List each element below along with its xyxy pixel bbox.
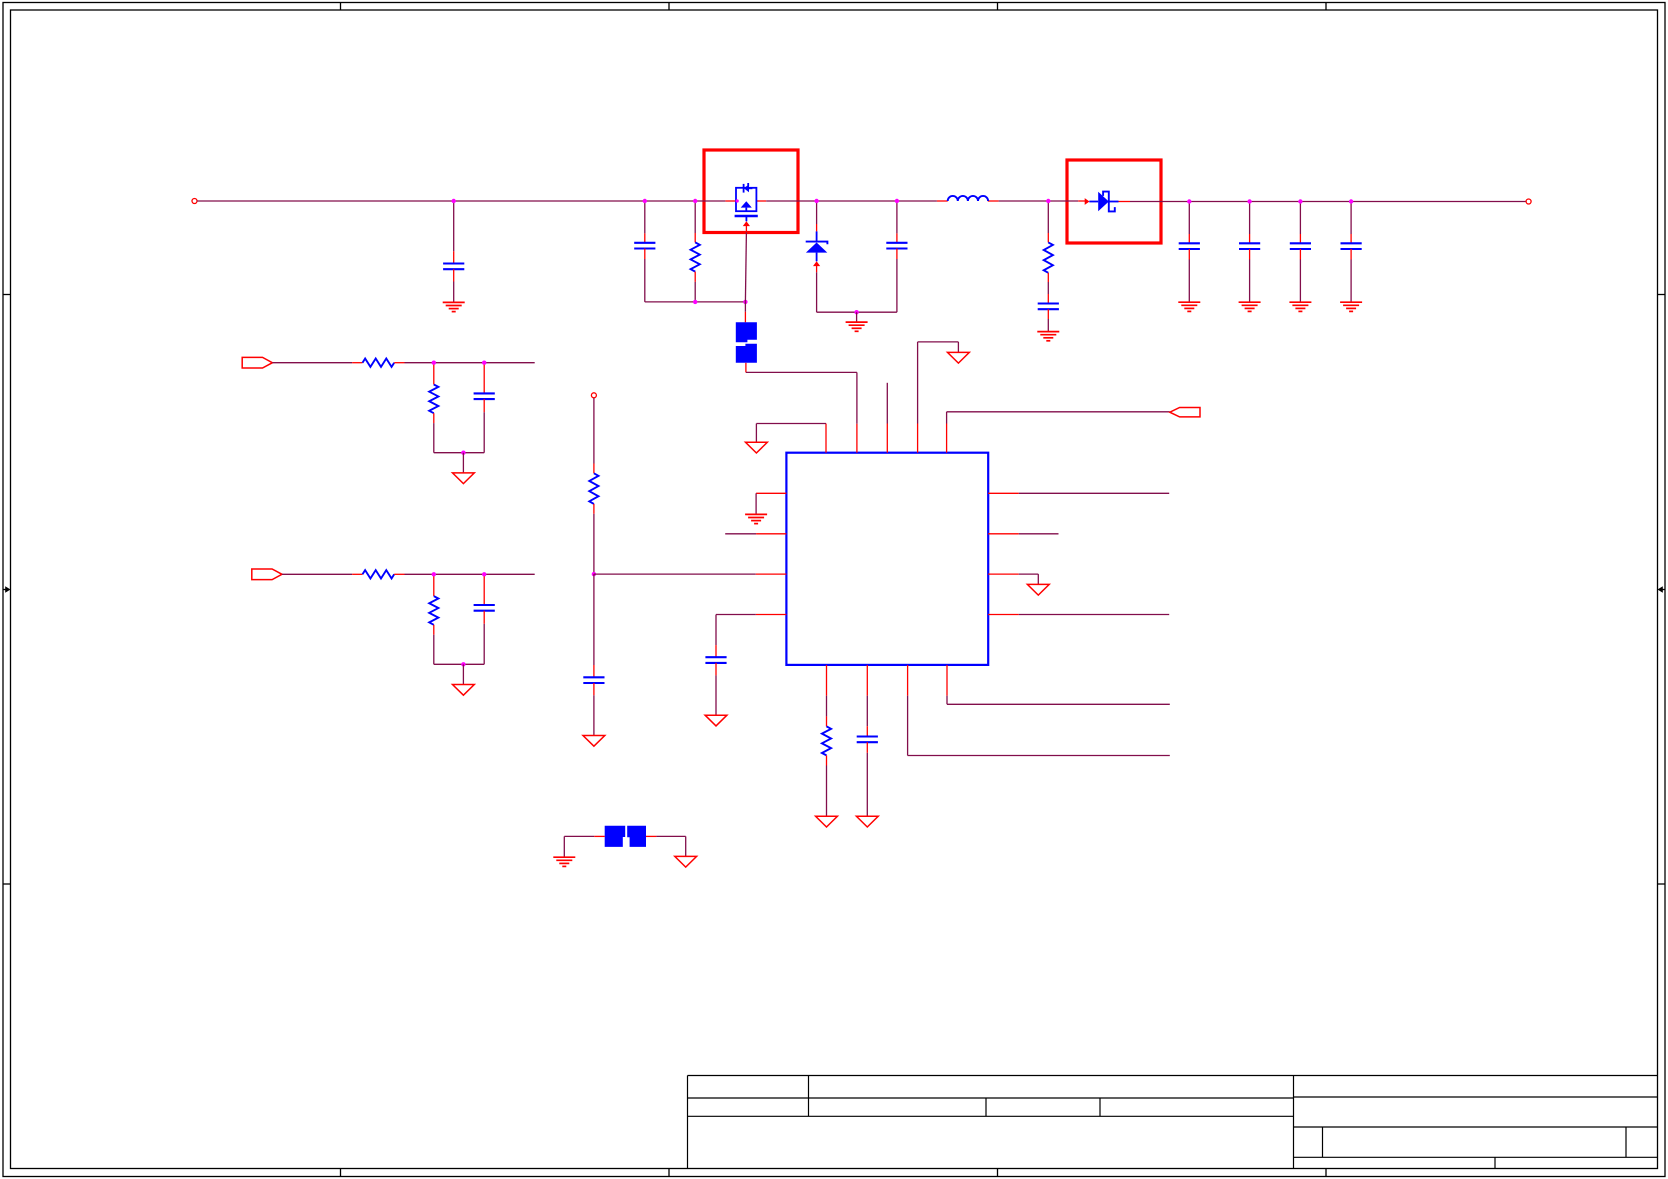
ground C13 xyxy=(705,715,727,726)
wire junction to U1 pin xyxy=(594,573,756,575)
wire Q1 stub right xyxy=(756,200,766,202)
wire U1 top pin 2 xyxy=(856,424,858,453)
red highlight box around D2 xyxy=(1067,160,1161,243)
op-amp U1 regulator IC xyxy=(786,453,988,665)
wire D1 C3 bottom node xyxy=(817,311,897,313)
wire U1 right pin 2 stub xyxy=(988,533,1019,535)
wire input rail VIN xyxy=(192,199,197,204)
resistor R4 xyxy=(433,365,435,385)
transistor Q1 P-MOSFET xyxy=(735,183,758,221)
capacitor C6 xyxy=(1249,202,1251,235)
wire F1 to U1 pin xyxy=(745,363,747,373)
wire filter1 bottom xyxy=(434,452,484,454)
ground C6 xyxy=(1239,302,1261,311)
wire U1 right pin 1 xyxy=(988,492,1019,494)
capacitor C11 xyxy=(593,574,595,665)
capacitor C13 xyxy=(715,645,717,657)
ground F2 right xyxy=(675,856,697,867)
ground C12 xyxy=(856,816,878,827)
wire Q1 to F1 xyxy=(744,302,746,312)
ground F2 left xyxy=(553,857,575,866)
wire rail Q1 to L1 xyxy=(766,200,937,202)
ground R2/C4 xyxy=(1037,332,1059,341)
node rail junctions xyxy=(452,199,456,203)
port P1 xyxy=(242,357,272,368)
resistor R6 xyxy=(433,576,435,596)
capacitor C1 xyxy=(453,201,455,251)
fuse F2 xyxy=(605,826,626,847)
ground filter2 xyxy=(453,685,475,696)
wire U1 bottom pin 2 xyxy=(866,665,868,696)
wire output rail VOUT xyxy=(1130,201,1526,203)
ground U1 top pin4 xyxy=(948,352,970,363)
ground C8 xyxy=(1340,302,1362,311)
ground C5 xyxy=(1178,302,1200,311)
capacitor C7 xyxy=(1299,202,1301,235)
node Q1 gate dot xyxy=(736,199,739,202)
wire F2 right xyxy=(646,835,656,837)
wire Q1 source pin xyxy=(743,221,750,226)
capacitor C9 xyxy=(483,365,485,394)
red highlight box around Q1 xyxy=(704,150,798,233)
resistor R3 xyxy=(363,359,395,367)
port OUT xyxy=(1170,408,1200,417)
wire L1 pin stubs xyxy=(937,200,948,202)
wire U1 bottom pin 3 xyxy=(907,665,909,696)
ground U1 top pin1 xyxy=(746,442,768,453)
wire rail L1 to D2 xyxy=(999,200,1079,202)
resistor R2 xyxy=(1047,201,1049,233)
wire U1 bottom pin 1 xyxy=(826,665,828,696)
wire Q1 gate stub left xyxy=(725,200,736,202)
resistor R7 xyxy=(593,398,595,464)
ground U1 pin1 xyxy=(745,514,767,523)
wire D2 cathode stub xyxy=(1119,201,1131,203)
wire U1 top pin 5 to output port xyxy=(946,424,948,453)
wire U1 left pin 4 xyxy=(756,614,787,616)
right border center arrow xyxy=(1662,589,1665,591)
resistor R1 xyxy=(694,201,696,233)
capacitor C12 xyxy=(866,696,868,727)
diode D1 xyxy=(816,201,818,224)
ground D1/C3 xyxy=(846,322,868,331)
inductor L1 xyxy=(948,196,988,201)
wire P1 to R3 xyxy=(272,362,352,364)
node snubber junctions xyxy=(693,300,697,304)
diode D2 schottky xyxy=(1089,201,1098,203)
wire U1 left pin 2 stub xyxy=(756,533,786,535)
node mid chain terminal xyxy=(591,393,596,398)
wire F2 left xyxy=(594,835,605,837)
wire U1 right pin 4 xyxy=(988,614,1019,616)
wire R7 to junction xyxy=(593,514,595,574)
wire filter2 bottom xyxy=(434,663,484,665)
wire U1 top pin 1 xyxy=(825,424,827,453)
ground C11 xyxy=(583,736,605,747)
capacitor C4 xyxy=(1047,294,1049,303)
capacitor C10 xyxy=(483,576,485,605)
ground filter1 xyxy=(453,473,475,484)
wire U1 left pin 3 xyxy=(756,573,787,575)
wire snubber bottom node xyxy=(645,301,746,303)
ground R8 xyxy=(816,816,838,827)
fuse F1 xyxy=(736,322,757,342)
wire P2 to R5 xyxy=(282,573,352,575)
ground U1 right pin3 xyxy=(1027,584,1049,595)
capacitor C2 xyxy=(644,201,646,233)
wire R5 out xyxy=(405,573,535,575)
wire D2 anode stub xyxy=(1078,200,1085,202)
wire U1 top pin 3 stub xyxy=(886,424,888,453)
ground C7 xyxy=(1289,302,1311,311)
ground C1 xyxy=(443,302,465,311)
left border center arrow xyxy=(3,589,6,591)
title block xyxy=(688,1076,1658,1169)
capacitor C5 xyxy=(1188,202,1190,235)
resistor R5 xyxy=(363,570,395,578)
wire R3 out xyxy=(405,362,535,364)
port P2 xyxy=(252,569,282,580)
capacitor C8 xyxy=(1350,202,1352,235)
wire U1 left pin 1 xyxy=(756,492,786,494)
wire U1 top pin 4 xyxy=(917,424,919,453)
capacitor C3 xyxy=(896,201,898,233)
resistor R8 xyxy=(826,696,828,717)
wire U1 right pin 3 xyxy=(988,573,1019,575)
wire U1 bottom pin 4 xyxy=(946,665,948,696)
